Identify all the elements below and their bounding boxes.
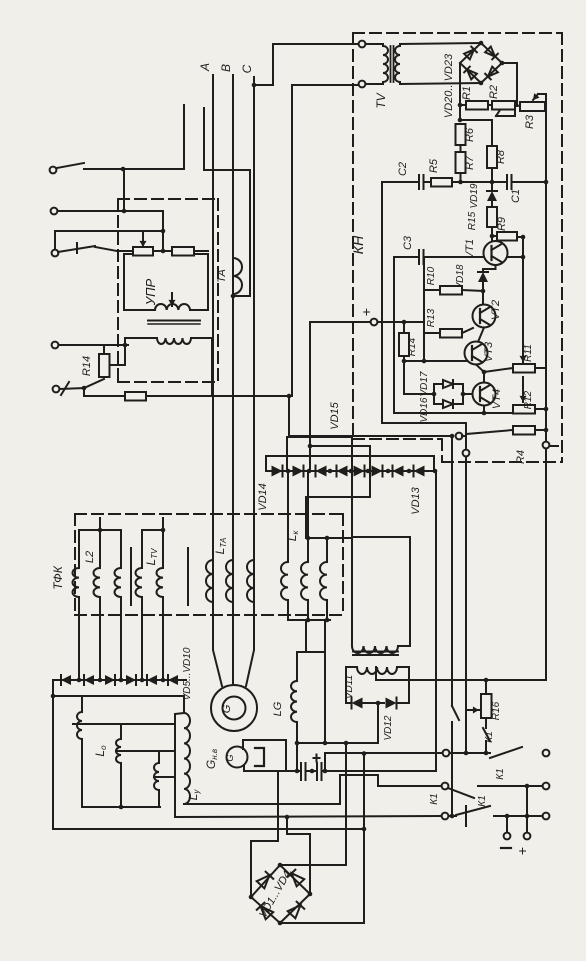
label KN	[350, 235, 366, 254]
wire VT2 emitter to VT3	[478, 328, 484, 343]
label G n.v.	[204, 749, 219, 769]
wire stub x184 up	[183, 105, 185, 169]
terminal T2 (left)	[51, 208, 163, 215]
label K1 d	[477, 795, 488, 806]
resistor R9	[492, 232, 517, 241]
winding LTA coils on phase lines	[206, 560, 254, 602]
wire rail y753	[325, 751, 443, 771]
wire R8 to y182	[490, 168, 495, 184]
contact K1-4	[456, 806, 549, 826]
core bar LTV/LTA	[187, 548, 189, 605]
label VD11	[344, 675, 355, 699]
label R12	[523, 390, 534, 409]
wire VD out down	[377, 703, 379, 743]
resistor R-a (UPR row, pot)	[133, 247, 153, 256]
UPR primary coil	[155, 304, 190, 310]
svg-text:VD20...VD23: VD20...VD23	[443, 53, 455, 118]
label VD5...VD10	[182, 647, 193, 700]
wire bridge bottom out	[280, 754, 364, 924]
svg-text:LG: LG	[272, 701, 284, 716]
label plus out	[514, 847, 530, 855]
svg-text:К1: К1	[429, 793, 440, 804]
label minus	[501, 847, 511, 849]
switch S5 (bottom-left)	[53, 382, 87, 395]
label L2	[84, 551, 96, 563]
wire R3 right to main riser	[544, 94, 549, 440]
svg-text:ТА: ТА	[216, 269, 228, 283]
wire bridge top out	[280, 743, 346, 865]
label R10	[426, 266, 437, 285]
svg-text:К1: К1	[484, 731, 495, 742]
node VD18-R10	[481, 289, 486, 294]
wire secondary left	[346, 667, 357, 703]
contact K1-2	[490, 747, 549, 758]
inductor Lo coil3	[154, 751, 159, 807]
wire VT1 emitter to VD18	[483, 265, 496, 271]
wire Lo line3	[154, 776, 175, 778]
wire L3 line	[289, 396, 466, 439]
svg-text:R7: R7	[464, 155, 476, 170]
core bar L2/LTV	[130, 548, 132, 605]
transformer secondary coil	[357, 667, 397, 674]
wire rail y753 right	[442, 752, 444, 754]
svg-text:R14: R14	[81, 356, 93, 376]
label C1	[510, 189, 522, 203]
label R14 (left)	[81, 356, 93, 376]
wire phase A	[212, 75, 214, 560]
resistor R14 (KN)	[399, 322, 409, 363]
wire L2 feedback	[382, 182, 466, 449]
label R1	[461, 86, 473, 100]
svg-text:R12: R12	[523, 390, 534, 409]
wire C3 line	[394, 257, 417, 361]
node at x123 y169	[121, 167, 126, 172]
svg-text:VD19: VD19	[469, 183, 480, 208]
wire row right down	[326, 469, 437, 771]
svg-text:VD13: VD13	[410, 486, 422, 514]
resistor R-b (UPR row)	[172, 247, 194, 256]
svg-text:R6: R6	[464, 127, 476, 142]
wire secondary right	[397, 667, 409, 703]
label VT4	[491, 389, 503, 409]
wire bridge feeds	[251, 771, 310, 897]
wire plus drop	[524, 786, 531, 839]
terminal on x466	[463, 450, 470, 753]
winding L2 rail	[79, 518, 121, 532]
UPR unit box	[124, 254, 208, 310]
wire y361 base line	[404, 360, 467, 362]
bridge rectifier VD20...VD23	[460, 41, 504, 86]
svg-text:С: С	[240, 64, 254, 73]
svg-text:С3: С3	[402, 235, 414, 250]
diode VD12	[372, 698, 409, 709]
diodes VD16 VD17 pair	[434, 380, 465, 408]
wire phase B	[232, 75, 234, 560]
diode row VD13...VD15	[266, 466, 434, 477]
svg-text:А: А	[198, 63, 212, 72]
terminal T4 with wire y345	[52, 342, 128, 349]
switch S3 (lower-left knife)	[52, 231, 117, 256]
wire phase C	[253, 77, 255, 560]
terminal y753 left	[443, 750, 490, 757]
transistor VT4	[463, 372, 496, 406]
R16 wiper arrow	[466, 707, 479, 714]
label R14 (KN)	[407, 337, 418, 356]
label R5	[428, 158, 440, 173]
svg-text:R16: R16	[491, 701, 502, 720]
svg-text:R2: R2	[488, 85, 500, 99]
wire rail y829	[53, 827, 366, 832]
wire y446 branch	[306, 446, 370, 538]
wire y231 upper branch	[55, 230, 163, 232]
svg-text:+: +	[514, 847, 530, 855]
transformer primary box	[352, 537, 410, 646]
resistor R8	[487, 146, 497, 168]
svg-text:R10: R10	[426, 266, 437, 285]
UPR transformer core	[148, 321, 200, 325]
label C3	[402, 235, 414, 250]
node C tap	[252, 83, 257, 88]
winding LTV rail	[142, 518, 165, 532]
svg-text:R3: R3	[524, 114, 536, 129]
svg-text:К1: К1	[495, 768, 506, 779]
label LTA	[213, 538, 228, 555]
wire y680 line	[376, 678, 546, 683]
TA secondary riser	[231, 170, 250, 298]
transformer core	[353, 652, 398, 656]
label plus (KN)	[358, 308, 374, 316]
dashed box KN	[353, 33, 562, 462]
label R2	[488, 85, 500, 99]
wire Lo line1	[73, 723, 175, 725]
label VT2	[490, 300, 502, 320]
label C2	[397, 162, 409, 176]
wire R16 bottom	[483, 718, 490, 755]
wire VT4 emitter bus y413	[394, 361, 513, 415]
label VD1...VD4	[257, 869, 293, 920]
capacitor C filter 2	[310, 755, 330, 781]
diode VD18	[478, 272, 488, 304]
wire top rail y537	[352, 536, 410, 538]
wire secondary tap	[375, 667, 377, 680]
diode VD11	[346, 698, 372, 709]
resistor R14 (left rheostat)	[99, 345, 125, 377]
label R16	[491, 701, 502, 720]
wire minus drop	[504, 814, 511, 840]
svg-text:+: +	[358, 308, 374, 316]
label R8	[495, 149, 507, 164]
svg-text:R15: R15	[467, 211, 478, 230]
label VD16	[419, 397, 430, 422]
TV primary coil	[366, 44, 388, 84]
label VT3	[483, 341, 495, 362]
exciter brush symbol	[255, 748, 264, 766]
label TV	[374, 92, 388, 108]
svg-text:R9: R9	[496, 217, 508, 231]
wire UPR resistor row	[117, 250, 208, 252]
wire phases to G	[213, 560, 254, 686]
wire TV bottom to drop	[292, 85, 358, 396]
resistor R3 (pot)	[515, 102, 545, 111]
LG coil	[291, 681, 297, 722]
label R6	[464, 127, 476, 142]
wire TV sec top to bridge	[400, 43, 481, 44]
label LG	[272, 701, 284, 716]
wire plus corner down	[309, 322, 311, 471]
R11 R12 wiper feed	[520, 257, 527, 402]
label VD15	[329, 401, 341, 429]
node row x310 riser	[308, 322, 313, 471]
wire rail y743	[295, 741, 378, 746]
svg-text:В: В	[219, 64, 233, 72]
svg-text:VD16: VD16	[419, 397, 430, 422]
wire bridge right corner to R2	[502, 63, 517, 106]
transistor VT2	[473, 305, 496, 328]
wire y182 mid	[461, 181, 506, 183]
diode VD19	[487, 182, 497, 207]
svg-text:G: G	[225, 754, 235, 761]
svg-text:VD17: VD17	[419, 371, 430, 396]
inductor Lo coil2	[116, 724, 123, 809]
wire stub x204 corner to TA	[204, 108, 250, 170]
resistor R16	[481, 680, 492, 718]
inductor Lo coil1	[77, 696, 82, 807]
wire R15 to node	[490, 227, 495, 238]
contact K1-3	[448, 783, 549, 798]
label R7	[464, 155, 476, 170]
resistor R13	[440, 328, 473, 338]
wire VT3 emitter node	[476, 365, 486, 375]
wire Lu bottom	[184, 775, 442, 804]
wire LK bottoms	[288, 600, 330, 622]
wire bridge node down	[458, 105, 463, 122]
svg-text:VT2: VT2	[490, 300, 502, 320]
wire diode row bracket	[266, 456, 434, 471]
label VD18	[455, 264, 466, 289]
wire LK to LG box	[306, 620, 325, 652]
svg-text:TV: TV	[374, 92, 388, 108]
transistor VT3	[465, 342, 488, 365]
wire Lo block	[51, 680, 184, 829]
svg-text:VD11: VD11	[344, 675, 355, 699]
svg-text:VD15: VD15	[329, 401, 341, 429]
svg-text:УПР: УПР	[143, 278, 158, 306]
label VD14	[257, 483, 269, 511]
wire R4 right link	[535, 428, 548, 433]
wire UPR sec left to node	[123, 338, 157, 347]
label R13	[426, 308, 437, 327]
label LTV	[144, 548, 159, 566]
wire bridge left corner down	[458, 63, 463, 107]
resistor R7	[456, 152, 466, 173]
label R3	[524, 114, 536, 129]
contact K1-1 on x452	[452, 436, 459, 816]
capacitor C2	[419, 175, 431, 189]
svg-text:КН: КН	[350, 235, 366, 254]
label R11	[523, 344, 534, 362]
wire R9 right node	[505, 235, 525, 260]
svg-text:VD12: VD12	[383, 715, 394, 740]
dashed box UPR	[118, 199, 218, 382]
label K1 b	[495, 768, 506, 779]
svg-text:VT4: VT4	[491, 389, 503, 409]
svg-text:R5: R5	[428, 158, 440, 173]
svg-text:R11: R11	[523, 344, 534, 362]
wire LK tops	[288, 471, 329, 562]
svg-text:К1: К1	[477, 795, 488, 806]
wire y182 left segment	[382, 181, 417, 183]
wire TV sec bottom to bridge	[400, 83, 481, 84]
svg-text:VD14: VD14	[257, 483, 269, 511]
winding LTV coils	[135, 530, 163, 680]
svg-text:R14: R14	[407, 337, 418, 356]
wire rail y786	[378, 783, 448, 790]
wire switch to R14 wiper	[84, 379, 104, 388]
winding LK coils	[281, 562, 327, 600]
generator G	[211, 685, 257, 731]
label TA	[216, 269, 228, 283]
svg-text:R4: R4	[515, 450, 527, 464]
svg-text:L2: L2	[84, 551, 96, 563]
label VD20...VD23	[443, 53, 455, 118]
UPR secondary coil	[157, 338, 191, 344]
label TFK	[51, 565, 65, 589]
resistor R10	[440, 286, 483, 295]
label VD19	[469, 183, 480, 208]
bridge rectifier VD1...VD4	[249, 863, 313, 926]
label VD12	[383, 715, 394, 740]
label R4	[515, 450, 527, 464]
wire caps rail to x436	[330, 770, 436, 772]
transistor VT1	[484, 236, 508, 265]
resistor R4	[466, 426, 535, 435]
svg-text:R1: R1	[461, 86, 473, 100]
label UPR	[143, 278, 158, 306]
wiper arrow onto resistor R-a	[140, 231, 147, 247]
wire riser x124 from node to T2 wire	[122, 169, 127, 213]
label Lo	[93, 745, 108, 757]
terminal KN out	[543, 442, 558, 680]
reactor LG box	[297, 652, 325, 771]
wire y437 branch	[287, 437, 352, 537]
winding L2 coils	[72, 530, 121, 680]
TV core	[391, 46, 394, 82]
diode row VD5...VD10	[53, 675, 186, 685]
current transformer TA	[233, 258, 242, 294]
wire Lo line2	[116, 750, 175, 752]
label R15	[467, 211, 478, 230]
wire node120 to R8	[460, 120, 492, 146]
resistor R15	[487, 207, 497, 227]
wire C to TV top	[254, 44, 361, 85]
node y231 x163	[161, 211, 166, 253]
resistor R6	[456, 124, 466, 145]
label K1 c	[429, 793, 440, 804]
arrow into UPR coil	[169, 293, 176, 306]
svg-text:С2: С2	[397, 162, 409, 176]
TV secondary coil	[395, 44, 400, 84]
transformer primary coil	[352, 646, 398, 653]
node L3	[287, 394, 292, 399]
label C	[240, 64, 254, 73]
label LK	[285, 530, 300, 542]
resistor R5	[431, 178, 461, 187]
label A	[198, 63, 212, 72]
label VT1	[464, 239, 476, 259]
svg-text:С1: С1	[510, 189, 522, 203]
wire y396 with series resistor	[84, 388, 292, 401]
wire R10-R13 left riser	[422, 257, 440, 363]
wire rail y816	[175, 813, 456, 820]
wire R7 to y182	[458, 173, 463, 184]
resistor R11 (pot)	[484, 364, 546, 373]
label R9	[496, 217, 508, 231]
svg-text:G: G	[221, 704, 233, 713]
transformer TV primary terminals	[359, 41, 366, 88]
label K1 a	[484, 731, 495, 742]
exciter G n.v.	[225, 740, 286, 771]
resistor R2 (pot)	[488, 101, 515, 116]
label VD13	[410, 486, 422, 514]
resistor R1	[460, 101, 488, 110]
wire exciter bottom to caps	[244, 770, 288, 772]
capacitor C3	[419, 250, 484, 264]
capacitor C1	[507, 175, 546, 189]
wire y169 to TA riser	[123, 168, 184, 170]
wire plus rail	[310, 319, 424, 326]
label VD17	[419, 371, 430, 396]
wire UPR sec right down	[191, 338, 212, 396]
capacitor C filter 1	[288, 763, 311, 780]
node R14kn top	[402, 320, 407, 325]
wire R6-R7	[460, 145, 462, 152]
resistor R12 (pot)	[513, 405, 548, 414]
wire LK rail y538	[306, 537, 352, 539]
dashed box TFK	[75, 514, 343, 615]
svg-text:VD5...VD10: VD5...VD10	[182, 647, 193, 700]
svg-text:R13: R13	[426, 308, 437, 327]
inductor Lu	[175, 713, 190, 817]
svg-text:VT3: VT3	[483, 341, 495, 362]
label Lu	[186, 789, 201, 801]
R3 wiper arrow	[533, 93, 546, 100]
svg-text:R8: R8	[495, 149, 507, 164]
label B	[219, 64, 233, 72]
wire Lo bottom	[82, 806, 160, 808]
switch S1 (top-left disconnect)	[50, 163, 123, 173]
wire R14 bottom chain	[404, 361, 436, 396]
svg-text:ТФК: ТФК	[51, 565, 65, 589]
